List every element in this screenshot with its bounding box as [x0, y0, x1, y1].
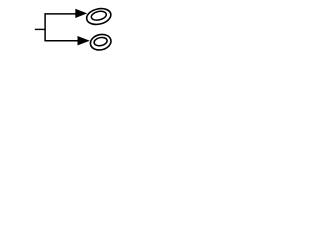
bottom arrowhead	[78, 36, 90, 45]
bottom ring symbol inner ellipse	[93, 36, 108, 47]
top arrowhead	[75, 9, 87, 18]
branch wire: top branch, vertical bus, bottom branch	[45, 14, 78, 41]
top ring symbol outer ellipse	[85, 6, 112, 26]
top ring symbol inner ellipse	[90, 10, 107, 22]
input wire stub	[35, 28, 45, 30]
bottom ring symbol outer ellipse	[89, 32, 113, 51]
